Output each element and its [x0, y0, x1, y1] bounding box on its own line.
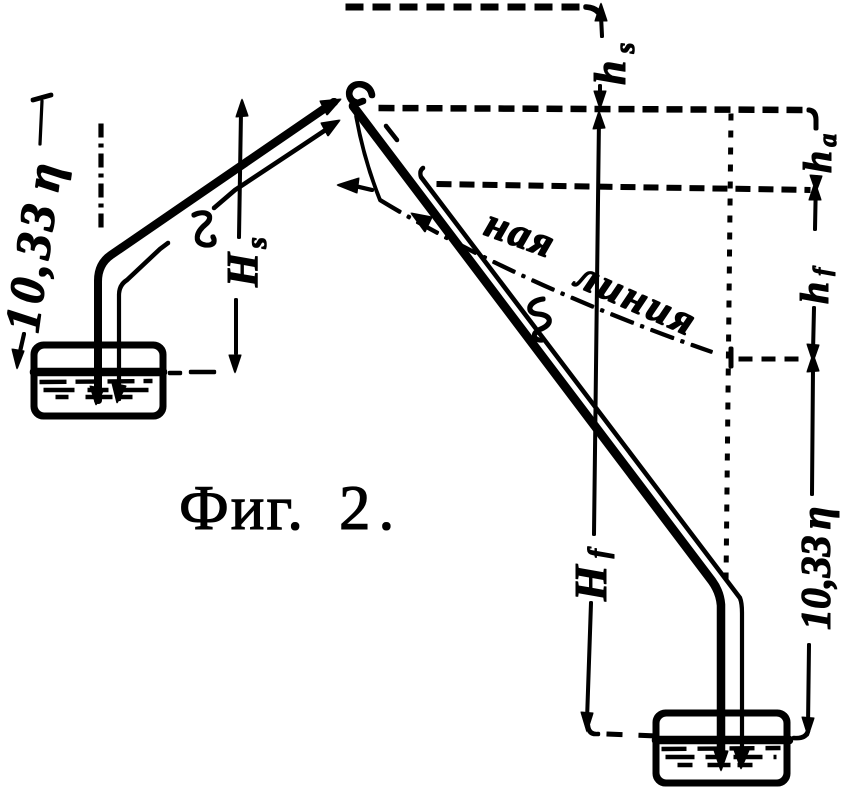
h_a lower segment	[815, 177, 816, 229]
arrowhead H_f bottom	[581, 712, 593, 732]
right tank body	[656, 713, 787, 783]
svg-text:hs: hs	[586, 36, 641, 85]
arrowhead right 10,33 bottom	[802, 717, 814, 736]
arrowhead h_f bottom	[807, 344, 819, 362]
left pipe inner wall	[119, 129, 327, 399]
arrowhead h_a bottom	[810, 175, 822, 192]
right 10,33 lower segment	[808, 645, 809, 726]
dotted axis of right pipe lower leg	[726, 114, 731, 583]
segment below	[812, 368, 813, 494]
apex curl	[349, 84, 372, 103]
right pipe inner wall stub	[386, 126, 397, 140]
svg-text:2.: 2.	[339, 473, 402, 543]
arrowhead h_f top	[809, 182, 821, 200]
arrowhead left 10,33 bottom	[12, 349, 24, 369]
dimension line H_f vertical	[587, 118, 599, 720]
svg-text:Hf: Hf	[565, 542, 616, 602]
arrowhead right pipe inner outlet	[733, 747, 749, 769]
left tank water shading	[40, 381, 152, 397]
tail segment of left arrowhead	[355, 186, 372, 190]
left tank body	[34, 345, 163, 416]
svg-text:10,33η: 10,33η	[794, 506, 840, 630]
left 10,33 top segment	[40, 101, 42, 144]
h_f lower segment	[813, 308, 814, 352]
arrowhead left pipe inner inlet	[112, 383, 126, 403]
svg-text:10,33η: 10,33η	[0, 155, 73, 335]
arrowhead H_s bottom	[229, 355, 241, 373]
arrowhead left pipe inner at apex	[321, 120, 340, 136]
dash-dot axis of left pipe	[99, 124, 103, 231]
corner stub right end	[809, 110, 816, 128]
svg-text:линия: линия	[567, 251, 705, 346]
dash-dot from H_s to left tank	[170, 372, 214, 373]
arrowhead on piezometric line	[411, 213, 432, 232]
arrowhead right 10,33 top	[807, 354, 819, 372]
zeta_2 symbol on right pipe	[530, 299, 550, 340]
arrowhead h_s bottom	[594, 91, 606, 109]
corner from H_f to right tank	[588, 726, 598, 734]
dimension line h_s vertical	[600, 16, 602, 101]
right pipe outer wall	[353, 106, 721, 756]
left 10,33 bottom segment	[19, 334, 24, 356]
left 10,33 top tick	[33, 95, 51, 100]
svg-text:ная: ная	[479, 200, 562, 268]
arrowhead left pipe inlet	[90, 386, 104, 405]
third dashed horizontal (h_a bottom level)	[437, 184, 810, 190]
peak-level dashed horizontal	[379, 108, 809, 110]
left tank water line	[34, 368, 163, 376]
left pipe outer wall	[98, 102, 334, 400]
arrowhead H_s top	[236, 99, 248, 117]
arrowhead h_s top	[595, 3, 607, 21]
short dashed horizontal at 10,33 top level	[731, 349, 806, 366]
arrowhead right pipe outlet	[714, 750, 728, 771]
dimension line H_s vertical	[236, 112, 241, 353]
arrowhead left pipe at apex	[320, 99, 341, 115]
dashes to right tank	[607, 734, 656, 736]
dash-dot piezometric diagonal line	[356, 116, 380, 200]
top energy-line dashed horizontal	[346, 7, 601, 18]
svg-text:hf: hf	[792, 262, 837, 304]
right pipe inner wall	[420, 168, 742, 751]
right tank water shading	[662, 748, 780, 765]
zeta_1 symbol on left pipe	[194, 213, 214, 245]
left arrowhead of third dashed line	[337, 178, 359, 193]
svg-text:Hs: Hs	[218, 233, 273, 288]
right tank water line	[656, 736, 789, 744]
arrowhead H_f top	[593, 111, 605, 129]
svg-text:ha: ha	[795, 130, 842, 173]
foot hook	[794, 731, 808, 738]
svg-text:Фиг.: Фиг.	[179, 473, 305, 543]
